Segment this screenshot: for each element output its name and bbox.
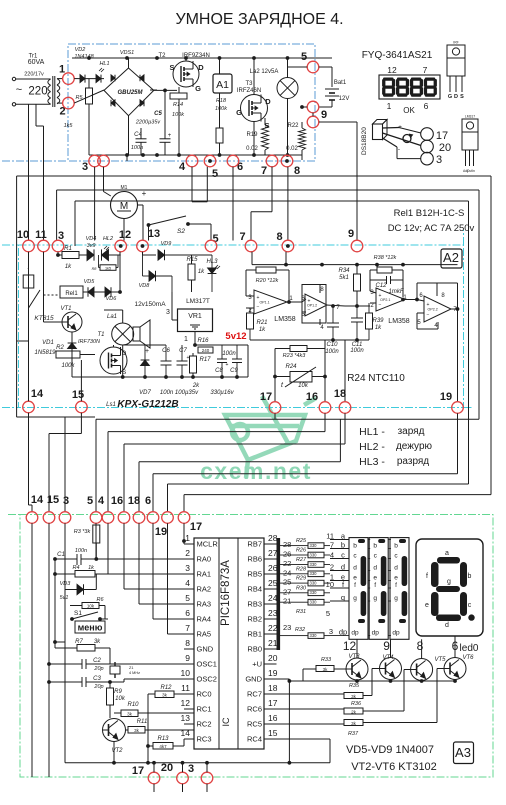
svg-text:21: 21 (268, 638, 278, 648)
svg-text:1: 1 (387, 101, 392, 111)
svg-text:A1: A1 (216, 79, 229, 91)
svg-text:10: 10 (17, 229, 29, 241)
svg-text:10: 10 (326, 580, 334, 589)
svg-text:C3: C3 (93, 676, 101, 682)
svg-text:+: + (379, 293, 382, 299)
svg-text:9: 9 (185, 653, 190, 663)
svg-text:12: 12 (387, 65, 397, 75)
svg-text:27: 27 (268, 548, 278, 558)
svg-text:330: 330 (310, 571, 318, 576)
svg-text:5v1: 5v1 (60, 595, 69, 601)
svg-text:OK: OK (403, 106, 415, 115)
svg-text:100n: 100n (350, 348, 364, 354)
svg-text:0.02: 0.02 (286, 146, 298, 152)
svg-text:9: 9 (383, 639, 390, 653)
svg-text:220/17v: 220/17v (24, 72, 44, 78)
svg-text:R24: R24 (285, 364, 297, 370)
svg-text:g: g (353, 595, 357, 602)
svg-text:f: f (426, 573, 428, 580)
svg-text:13: 13 (148, 228, 160, 240)
svg-text:R22: R22 (287, 123, 299, 129)
svg-text:5: 5 (185, 593, 190, 603)
svg-text:RA1: RA1 (197, 570, 212, 579)
svg-text:330µ16v: 330µ16v (210, 390, 234, 396)
svg-text:10: 10 (181, 668, 191, 678)
svg-text:20p: 20p (93, 684, 103, 690)
svg-text:330: 330 (310, 633, 318, 638)
svg-text:16: 16 (306, 391, 318, 403)
svg-text:4: 4 (179, 161, 186, 173)
svg-text:D: D (198, 63, 204, 72)
svg-text:0.02: 0.02 (246, 146, 258, 152)
svg-text:24: 24 (283, 568, 291, 577)
svg-text:R26: R26 (296, 548, 307, 554)
svg-text:Rel1: Rel1 (65, 291, 78, 297)
svg-text:10k: 10k (87, 603, 95, 608)
svg-text:7: 7 (423, 65, 428, 75)
svg-text:Z1: Z1 (129, 666, 133, 670)
svg-text:R17: R17 (199, 357, 211, 363)
svg-text:VDS1: VDS1 (120, 50, 134, 56)
svg-text:10k: 10k (298, 383, 309, 389)
svg-text:VD5: VD5 (84, 279, 96, 285)
svg-text:+U: +U (252, 660, 262, 669)
svg-text:VD1: VD1 (42, 340, 54, 346)
svg-text:R23 *4k3: R23 *4k3 (283, 353, 307, 359)
svg-text:3: 3 (329, 627, 333, 636)
svg-text:RA2: RA2 (197, 585, 212, 594)
svg-text:4: 4 (330, 550, 334, 559)
svg-text:IC: IC (221, 717, 231, 727)
svg-text:19: 19 (440, 391, 452, 403)
svg-text:A2: A2 (443, 250, 459, 265)
svg-text:11: 11 (181, 683, 190, 693)
svg-text:e: e (373, 574, 377, 581)
svg-text:100n: 100n (222, 351, 236, 357)
svg-text:RC3: RC3 (197, 735, 212, 744)
svg-text:26: 26 (268, 563, 278, 573)
svg-text:VT2-VT6 KT3102: VT2-VT6 KT3102 (351, 761, 437, 773)
svg-text:LM358: LM358 (274, 316, 296, 323)
svg-text:15: 15 (72, 389, 84, 401)
svg-text:C7: C7 (179, 348, 187, 354)
svg-text:7: 7 (261, 165, 267, 177)
svg-text:15: 15 (47, 494, 59, 506)
svg-text:УМНОЕ ЗАРЯДНОЕ 4.: УМНОЕ ЗАРЯДНОЕ 4. (175, 11, 343, 28)
svg-text:e: e (394, 574, 398, 581)
svg-text:R13: R13 (157, 736, 169, 742)
svg-text:9: 9 (348, 228, 354, 240)
svg-text:VT3: VT3 (348, 654, 360, 660)
svg-text:19: 19 (155, 526, 167, 538)
svg-text:R30: R30 (296, 585, 307, 591)
svg-text:2: 2 (185, 548, 190, 558)
svg-text:S: S (169, 63, 174, 72)
svg-text:Bat1: Bat1 (334, 80, 347, 86)
svg-text:меню: меню (78, 623, 103, 633)
svg-text:−: − (257, 305, 260, 311)
svg-text:RC4: RC4 (247, 735, 262, 744)
svg-text:60VA: 60VA (28, 59, 45, 66)
svg-text:f: f (374, 582, 376, 589)
svg-text:La2 12v5A: La2 12v5A (250, 69, 279, 75)
svg-text:VD4: VD4 (86, 236, 97, 242)
svg-text:b: b (394, 542, 398, 549)
svg-text:dp: dp (339, 627, 347, 636)
svg-text:GND: GND (197, 645, 214, 654)
svg-text:R27: R27 (296, 557, 307, 563)
svg-text:17: 17 (260, 391, 272, 403)
svg-text:R18: R18 (216, 98, 227, 104)
svg-text:G: G (448, 94, 452, 100)
svg-text:25: 25 (283, 578, 291, 587)
svg-text:8: 8 (417, 639, 424, 653)
svg-text:+: + (168, 133, 172, 139)
svg-text:VD6: VD6 (106, 296, 118, 302)
svg-text:+: + (308, 299, 311, 305)
svg-text:OP2.1: OP2.1 (380, 298, 390, 302)
svg-text:T3: T3 (245, 81, 253, 87)
svg-text:240: 240 (202, 348, 210, 353)
svg-text:100n: 100n (325, 349, 339, 355)
svg-text:18: 18 (128, 495, 140, 507)
svg-text:HL3 -: HL3 - (359, 456, 385, 468)
svg-text:R14: R14 (173, 102, 183, 108)
svg-text:VT1: VT1 (60, 306, 71, 312)
svg-text:RB6: RB6 (247, 555, 262, 564)
svg-text:6: 6 (424, 101, 429, 111)
svg-text:R29: R29 (296, 576, 306, 582)
svg-text:R31: R31 (296, 609, 306, 615)
svg-text:8: 8 (276, 231, 282, 243)
svg-text:1k5: 1k5 (105, 266, 111, 270)
svg-text:100k: 100k (215, 106, 227, 112)
svg-text:3k: 3k (127, 712, 133, 717)
svg-text:Rel1 B12H-1C-S: Rel1 B12H-1C-S (394, 208, 465, 219)
svg-text:DS18B20: DS18B20 (361, 127, 368, 155)
svg-text:100k: 100k (172, 112, 184, 118)
svg-text:3v9: 3v9 (87, 243, 96, 249)
svg-text:led0: led0 (460, 643, 479, 654)
svg-text:M1: M1 (121, 185, 128, 191)
svg-text:C5: C5 (154, 111, 162, 117)
svg-text:R16: R16 (197, 338, 209, 344)
svg-text:R36: R36 (351, 701, 362, 707)
svg-text:RA5: RA5 (197, 630, 212, 639)
svg-text:d: d (341, 562, 345, 571)
svg-text:R33: R33 (321, 657, 332, 663)
svg-text:R19: R19 (246, 132, 258, 138)
svg-text:+: + (257, 295, 260, 301)
svg-text:dp: dp (392, 629, 400, 636)
svg-text:−: − (427, 312, 430, 318)
svg-text:3k: 3k (134, 728, 140, 733)
svg-text:HL1 -: HL1 - (359, 426, 385, 438)
svg-text:Ls1: Ls1 (106, 402, 116, 408)
svg-text:RB2: RB2 (247, 615, 262, 624)
svg-text:заряд: заряд (398, 426, 425, 437)
svg-text:g: g (341, 593, 345, 602)
svg-text:RB1: RB1 (247, 630, 262, 639)
svg-text:16: 16 (111, 495, 123, 507)
svg-text:LM358: LM358 (388, 318, 410, 325)
svg-text:18: 18 (334, 388, 346, 400)
svg-text:LM317: LM317 (465, 115, 475, 119)
svg-text:3: 3 (166, 309, 170, 316)
svg-text:−: − (379, 302, 382, 308)
svg-text:e: e (425, 602, 429, 609)
svg-text:330: 330 (310, 562, 318, 567)
svg-text:−: − (308, 307, 311, 313)
svg-text:R24 NTC110: R24 NTC110 (347, 373, 405, 384)
svg-text:VD9: VD9 (161, 241, 172, 247)
svg-text:R28: R28 (296, 566, 307, 572)
svg-text:d: d (373, 564, 377, 571)
svg-text:3k: 3k (162, 693, 168, 698)
svg-text:G: G (195, 84, 201, 93)
svg-text:330: 330 (310, 552, 318, 557)
svg-text:R20 *12k: R20 *12k (256, 278, 279, 284)
svg-text:e: e (353, 574, 357, 581)
svg-text:5k1: 5k1 (339, 275, 349, 281)
svg-text:100n 100µ35v: 100n 100µ35v (160, 390, 199, 396)
svg-text:d: d (445, 622, 449, 629)
svg-text:M: M (120, 201, 128, 212)
svg-text:KPX-G1212B: KPX-G1212B (117, 399, 178, 410)
svg-text:1: 1 (59, 64, 65, 76)
svg-text:g: g (373, 595, 377, 602)
svg-text:R12: R12 (160, 685, 172, 691)
svg-text:19: 19 (268, 668, 278, 678)
svg-text:HL1: HL1 (99, 61, 109, 67)
svg-text:-: - (398, 146, 400, 153)
svg-text:R11: R11 (137, 719, 148, 725)
svg-text:25: 25 (268, 578, 278, 588)
svg-text:5: 5 (301, 51, 307, 63)
svg-text:5: 5 (326, 609, 330, 618)
svg-text:1k5: 1k5 (64, 123, 74, 129)
svg-text:1k: 1k (375, 325, 382, 331)
svg-text:RB3: RB3 (247, 600, 262, 609)
svg-text:R21: R21 (256, 320, 267, 326)
svg-text:In: In (472, 169, 475, 173)
svg-text:330: 330 (310, 590, 318, 595)
svg-text:g: g (394, 595, 398, 602)
svg-text:7: 7 (185, 623, 190, 633)
svg-text:1: 1 (184, 336, 188, 343)
svg-text:R25: R25 (296, 538, 307, 544)
svg-text:20: 20 (268, 653, 278, 663)
svg-text:17: 17 (436, 130, 448, 142)
svg-text:c: c (341, 550, 345, 559)
svg-text:R34: R34 (338, 268, 350, 274)
svg-text:12: 12 (119, 229, 131, 241)
svg-text:22: 22 (268, 623, 278, 633)
svg-text:1: 1 (185, 533, 190, 543)
svg-text:RB0: RB0 (247, 645, 262, 654)
svg-text:27: 27 (283, 587, 291, 596)
svg-text:IRF730N: IRF730N (78, 339, 100, 345)
svg-text:+: + (145, 348, 149, 355)
svg-text:1N4148: 1N4148 (74, 54, 94, 60)
svg-text:RA0: RA0 (197, 555, 212, 564)
svg-text:VD2: VD2 (75, 47, 86, 53)
svg-text:R15: R15 (186, 257, 198, 263)
svg-text:20: 20 (161, 762, 173, 774)
svg-text:21: 21 (283, 597, 291, 606)
svg-text:RB5: RB5 (247, 570, 262, 579)
svg-text:OP2.2: OP2.2 (428, 308, 438, 312)
svg-text:GND: GND (245, 675, 262, 684)
svg-text:RA4: RA4 (197, 615, 212, 624)
svg-text:RC7: RC7 (247, 690, 262, 699)
svg-text:f: f (395, 582, 397, 589)
svg-text:4: 4 (185, 578, 190, 588)
svg-text:220: 220 (28, 86, 47, 98)
svg-text:10k: 10k (115, 696, 126, 702)
svg-text:3: 3 (185, 563, 190, 573)
svg-text:b: b (373, 542, 377, 549)
svg-text:VD8: VD8 (139, 283, 151, 289)
svg-text:g: g (447, 579, 451, 586)
svg-text:3k: 3k (351, 694, 357, 699)
svg-text:G: G (236, 108, 242, 117)
svg-text:+: + (142, 189, 147, 198)
svg-text:S: S (460, 94, 464, 100)
svg-text:1N5819: 1N5819 (34, 350, 56, 356)
svg-text:1k: 1k (259, 327, 266, 333)
svg-text:RC1: RC1 (197, 705, 212, 714)
svg-text:22: 22 (283, 559, 291, 568)
svg-text:28: 28 (283, 540, 291, 549)
svg-text:8: 8 (185, 638, 190, 648)
svg-text:KT815: KT815 (34, 315, 54, 322)
svg-text:FYQ-3641AS21: FYQ-3641AS21 (362, 50, 433, 61)
svg-text:R2: R2 (56, 345, 64, 351)
svg-text:2: 2 (330, 562, 334, 571)
svg-text:R10: R10 (127, 702, 139, 708)
svg-text:3k: 3k (351, 721, 357, 726)
svg-text:24: 24 (268, 593, 278, 603)
svg-text:2k: 2k (192, 383, 200, 389)
svg-text:VT5: VT5 (434, 657, 446, 663)
svg-text:17: 17 (190, 521, 202, 533)
svg-text:5: 5 (87, 495, 93, 507)
svg-text:3: 3 (436, 154, 442, 166)
svg-text:b: b (341, 540, 345, 549)
svg-text:18: 18 (268, 683, 278, 693)
svg-text:b: b (468, 573, 472, 580)
svg-text:17: 17 (132, 765, 144, 777)
svg-text:дежурю: дежурю (396, 441, 433, 452)
svg-text:3k: 3k (323, 667, 329, 672)
svg-text:IRFZ46N: IRFZ46N (237, 88, 261, 94)
svg-text:100k: 100k (61, 363, 75, 369)
svg-text:VD3: VD3 (60, 581, 72, 587)
svg-text:5: 5 (212, 168, 218, 180)
svg-text:12V: 12V (339, 96, 350, 102)
svg-text:2k: 2k (351, 710, 357, 715)
svg-text:C2: C2 (93, 658, 101, 664)
svg-text:16: 16 (268, 713, 278, 723)
svg-text:R3 *3k: R3 *3k (74, 529, 91, 535)
svg-text:+: + (427, 302, 430, 308)
svg-text:R38 *12k: R38 *12k (374, 255, 397, 261)
svg-text:RC0: RC0 (197, 690, 212, 699)
svg-text:330: 330 (310, 543, 318, 548)
svg-text:R32: R32 (295, 627, 305, 633)
svg-text:14: 14 (31, 388, 44, 400)
svg-text:2200µ35v: 2200µ35v (135, 120, 162, 126)
svg-text:330: 330 (310, 600, 318, 605)
svg-text:~: ~ (16, 84, 22, 96)
svg-text:VD7: VD7 (139, 390, 151, 396)
svg-text:4k7: 4k7 (159, 744, 167, 749)
svg-text:d: d (394, 564, 398, 571)
svg-text:RC5: RC5 (247, 720, 262, 729)
svg-text:VT2: VT2 (111, 748, 123, 754)
svg-text:15: 15 (268, 728, 278, 738)
svg-text:+: + (398, 124, 402, 131)
svg-text:разряд: разряд (397, 456, 429, 467)
svg-text:4: 4 (98, 495, 105, 507)
svg-text:6: 6 (145, 495, 151, 507)
svg-text:14: 14 (31, 494, 44, 506)
svg-text:+: + (226, 362, 229, 368)
svg-text:dp: dp (351, 629, 359, 636)
svg-text:C1: C1 (57, 552, 65, 558)
svg-text:RB4: RB4 (247, 585, 262, 594)
svg-text:12v150mA: 12v150mA (134, 301, 166, 308)
svg-text:DC 12v; AC 7A 250v: DC 12v; AC 7A 250v (388, 223, 475, 234)
svg-text:S2: S2 (177, 228, 185, 235)
svg-text:13: 13 (181, 713, 191, 723)
svg-text:1k: 1k (198, 269, 205, 275)
svg-text:11: 11 (326, 531, 334, 540)
svg-text:R39: R39 (372, 318, 384, 324)
svg-text:S1: S1 (74, 610, 82, 617)
svg-text:RC6: RC6 (247, 705, 262, 714)
svg-text:VD5-VD9 1N4007: VD5-VD9 1N4007 (346, 744, 434, 756)
svg-text:28: 28 (268, 533, 278, 543)
svg-text:HL2 -: HL2 - (359, 441, 385, 453)
svg-text:c: c (468, 602, 472, 609)
svg-text:d: d (353, 564, 357, 571)
svg-text:9: 9 (321, 109, 327, 121)
svg-text:5v12: 5v12 (225, 331, 246, 342)
svg-text:R35: R35 (349, 683, 360, 689)
svg-text:dp: dp (372, 629, 380, 636)
svg-text:OSC2: OSC2 (197, 675, 217, 684)
svg-text:100n: 100n (75, 548, 87, 554)
svg-text:8: 8 (294, 165, 300, 177)
svg-text:VR1: VR1 (188, 313, 202, 320)
svg-text:4 MHz: 4 MHz (129, 671, 140, 675)
svg-text:PIC16F873A: PIC16F873A (220, 560, 232, 626)
svg-text:7: 7 (330, 540, 334, 549)
svg-text:OSC1: OSC1 (197, 660, 217, 669)
svg-text:7: 7 (239, 231, 245, 243)
svg-text:1k: 1k (65, 264, 72, 270)
svg-text:D: D (265, 97, 271, 106)
svg-text:IRF: IRF (453, 41, 458, 45)
svg-text:T1: T1 (97, 332, 104, 338)
svg-text:12: 12 (181, 698, 191, 708)
svg-text:T2: T2 (158, 53, 166, 59)
svg-text:C10: C10 (326, 342, 338, 348)
svg-text:R37: R37 (348, 731, 359, 737)
svg-text:D: D (454, 94, 458, 100)
